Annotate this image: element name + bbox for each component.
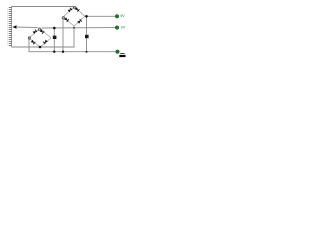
junction dot node A xyxy=(85,15,88,18)
wire vertical capacitor branch C2 xyxy=(86,16,88,51)
D1 diode upper-left xyxy=(68,8,73,13)
capacitor C2 xyxy=(85,35,89,38)
junction dot node G xyxy=(86,51,88,53)
terminal 2 xyxy=(115,26,119,30)
junction dot node C xyxy=(73,27,75,29)
D2 diode upper-left xyxy=(32,30,37,35)
D2 left vertex loop xyxy=(28,37,30,39)
D2 diode lower-left xyxy=(31,40,36,45)
capacitor C1 xyxy=(53,36,57,39)
transformer T1 winding xyxy=(8,7,12,48)
terminal 3 polarity mark xyxy=(119,54,125,58)
D1 diode lower-left xyxy=(64,17,69,22)
svg-text:0V: 0V xyxy=(121,25,126,29)
wire center tap xyxy=(16,26,38,29)
wire top rail xyxy=(12,6,75,8)
tap wiper arrow xyxy=(12,25,16,28)
junction dot node B xyxy=(53,27,56,30)
D2 top vertex loop xyxy=(38,28,40,30)
wire vertical from D1 left vertex xyxy=(62,18,64,52)
bridge rectifier D2 outline xyxy=(29,29,51,48)
wire bridge D1 output to terminal 1 xyxy=(85,15,116,17)
D1 diode upper-right xyxy=(75,7,80,12)
wire mid rail to terminal 2 xyxy=(42,27,116,29)
svg-text:9V: 9V xyxy=(120,14,125,18)
wire bottom rail to terminal 3 xyxy=(29,39,117,52)
wire bottom of winding xyxy=(12,27,75,48)
D2 diode upper-right xyxy=(40,29,45,34)
junction dot node F xyxy=(62,51,64,53)
D2 diode lower-right xyxy=(43,40,48,45)
D1 top vertex loop xyxy=(73,6,75,8)
junction dot node E xyxy=(53,51,55,53)
D1 left vertex loop xyxy=(62,17,64,19)
wire vertical capacitor branch C1 xyxy=(53,28,55,52)
terminal 3 xyxy=(116,50,120,54)
bridge rectifier D1 outline xyxy=(63,7,85,26)
D1 diode lower-right xyxy=(77,19,82,24)
terminal 1 xyxy=(115,14,119,18)
junction dot node D xyxy=(39,46,42,49)
